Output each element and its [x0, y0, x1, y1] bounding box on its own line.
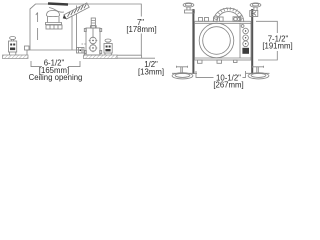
remodel clip right — [104, 39, 112, 55]
arch bail — [213, 7, 244, 22]
dimension 10-1/2 — [196, 71, 246, 77]
can aperture circles — [199, 23, 234, 58]
svg-text:[178mm]: [178mm] — [126, 25, 156, 34]
svg-text:[13mm]: [13mm] — [138, 67, 164, 76]
socket wire — [49, 8, 64, 13]
dimension 6-1/2 ceiling opening — [31, 61, 80, 67]
remodel clip left — [9, 37, 17, 56]
foot left — [172, 66, 193, 79]
junction box J1 — [82, 28, 102, 55]
socket bracket top — [233, 17, 241, 22]
housing can outline — [27, 4, 88, 55]
hanger post left — [183, 3, 194, 13]
foot right — [248, 66, 269, 79]
small bracket left wall — [25, 46, 30, 50]
dimension 7 inch — [88, 4, 141, 55]
connector nipple on box — [90, 18, 96, 28]
svg-text:[267mm]: [267mm] — [213, 81, 243, 90]
hanger bar — [172, 72, 270, 74]
right housing frame rails — [192, 9, 253, 74]
armored cable — [63, 3, 89, 19]
ceiling line extension (underside) — [117, 57, 155, 59]
svg-text:Ceiling opening: Ceiling opening — [29, 73, 83, 82]
dimension 1/2 step — [141, 55, 143, 58]
hanger post right — [250, 3, 261, 17]
ribbed rail — [46, 25, 62, 29]
ceiling hatch right — [84, 55, 118, 59]
spring bracket at can wall — [77, 48, 85, 54]
ceiling hatch left — [3, 55, 29, 59]
svg-text:[191mm]: [191mm] — [262, 41, 292, 50]
socket top bar — [48, 4, 68, 5]
socket cup — [46, 11, 62, 25]
top tabs — [199, 17, 224, 21]
interior mark — [36, 13, 38, 41]
right housing box — [195, 21, 252, 60]
ceiling line extension (top surface) — [117, 54, 142, 56]
dimension 7-1/2 — [256, 21, 277, 60]
junction box right — [240, 23, 249, 58]
bottom tabs — [198, 60, 238, 63]
